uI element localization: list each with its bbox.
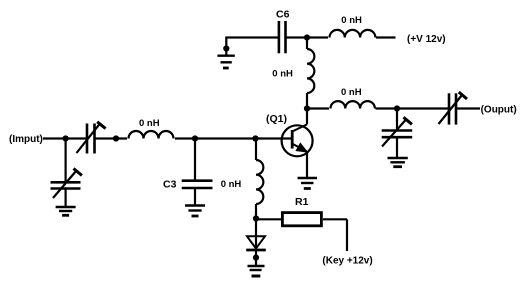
capacitor C6 (279, 21, 286, 53)
svg-text:(Key +12v): (Key +12v) (322, 256, 372, 267)
ground (input shunt) (56, 207, 76, 215)
node below diode (253, 255, 259, 261)
ground (emitter) (298, 178, 318, 189)
wire base shunt down (255, 139, 257, 161)
inductor L4 (vertical, feed) 0 nH (307, 38, 314, 109)
wire output node to VC3 (397, 107, 449, 109)
variable capacitor VC2 (shunt, input) (51, 169, 82, 199)
svg-text:0 nH: 0 nH (341, 15, 362, 26)
diode D1 (246, 236, 266, 250)
wire collector node to L3 (307, 107, 329, 109)
node top junction (304, 34, 310, 40)
node above C6 ground (223, 45, 229, 51)
node collector junction (304, 105, 310, 111)
node base junction (252, 135, 258, 141)
svg-text:C3: C3 (163, 179, 177, 191)
wire down to key label (346, 219, 348, 251)
resistor R1 (282, 213, 321, 226)
wire diode to ground (255, 250, 257, 266)
wire R1 right (323, 218, 347, 220)
inductor L2 (top) 0 nH (330, 30, 376, 38)
svg-text:0 nH: 0 nH (341, 87, 362, 98)
capacitor C3 (182, 181, 213, 188)
ground (C6 left) (217, 56, 234, 68)
wire VC2 to ground (64, 189, 66, 208)
wire L5 to R1 node (255, 204, 257, 219)
wire down to ground (C6) (225, 37, 227, 56)
node R1/diode junction (253, 215, 259, 221)
wire L1 to base (175, 137, 291, 139)
svg-text:(+V 12v): (+V 12v) (407, 34, 446, 45)
wire VC4 to ground (396, 137, 398, 158)
capacitor C3 wire down (194, 139, 196, 181)
svg-text:R1: R1 (295, 196, 309, 208)
variable capacitor VC3 (series, output) (439, 92, 468, 125)
wire C3 to ground (194, 188, 196, 206)
variable capacitor VC1 (series, input) (77, 122, 106, 154)
wire collector up (306, 109, 308, 125)
wire input line left (43, 137, 87, 139)
inductor L5 (base shunt) 0 nH (256, 160, 263, 204)
inductor L3 (collector) 0 nH (331, 101, 375, 108)
inductor L1 (input) 0 nH (129, 131, 174, 139)
node after VC1 (113, 135, 119, 141)
wire top node to L2 (307, 36, 328, 38)
wire output shunt down (396, 109, 398, 131)
wire top node to C6 (286, 36, 308, 38)
variable capacitor VC4 (shunt, output) (382, 117, 413, 146)
node input junction (63, 135, 69, 141)
node output junction (394, 105, 400, 111)
wire VC3 to output label (456, 107, 480, 109)
transistor Q1 (282, 124, 313, 156)
wire L2 to +V (376, 36, 396, 38)
svg-text:0 nH: 0 nH (139, 118, 160, 129)
svg-text:(Imput): (Imput) (9, 134, 43, 145)
svg-text:(Q1): (Q1) (266, 113, 287, 125)
wire input shunt branch (64, 139, 66, 183)
svg-text:(Ouput): (Ouput) (481, 104, 517, 115)
wire node to diode (255, 219, 257, 251)
ground (output shunt) (388, 158, 408, 167)
ground (diode) (248, 266, 265, 276)
svg-text:0 nH: 0 nH (221, 179, 242, 190)
wire emitter to ground (306, 151, 308, 178)
svg-text:0 nH: 0 nH (272, 69, 293, 80)
node C3 junction (192, 135, 198, 141)
wire node to R1 (256, 218, 281, 220)
wire after VC1 (95, 137, 128, 139)
wire L3 to output node (376, 107, 398, 109)
ground (C3) (185, 206, 205, 217)
svg-text:C6: C6 (276, 9, 290, 21)
wire C6 to left (226, 36, 279, 38)
